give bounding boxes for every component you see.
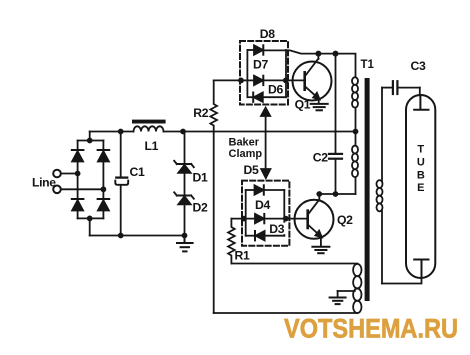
diode D4 (255, 214, 264, 223)
diode bridge lower-left (72, 199, 84, 211)
svg-text:Q2: Q2 (337, 213, 353, 227)
node D7 left junction (239, 78, 243, 82)
svg-text:D3: D3 (269, 222, 284, 236)
node Line terminal bottom (53, 186, 61, 194)
node bridge top tap (88, 139, 92, 143)
baker clamp callout line (265, 114, 267, 170)
wire bridge top to dc rail (89, 132, 91, 141)
svg-text:R2: R2 (193, 106, 208, 120)
wire D4 to Q2 base (264, 218, 306, 220)
node C1 bottom (119, 234, 123, 238)
node Line terminal top (53, 170, 61, 178)
capacitor C2 (329, 154, 342, 159)
tube bottom electrode (414, 260, 428, 278)
svg-text:E: E (417, 182, 424, 194)
wire box1 left rail (246, 50, 248, 97)
node T1 center tap (354, 130, 358, 134)
fluorescent tube outline (406, 95, 435, 278)
wire dc rail middle segment (164, 131, 356, 133)
dashed box 2 (baker clamp around D3-D5) (242, 181, 289, 246)
wire D7 branch left (241, 79, 254, 81)
svg-text:D8: D8 (260, 27, 275, 41)
diode bridge upper-right (98, 150, 110, 162)
node bridge AC left (76, 172, 80, 176)
diode D2 (zener) (174, 192, 194, 204)
transformer T1 secondary winding (377, 180, 383, 211)
wire R1 to D4 (231, 218, 255, 220)
svg-text:Baker: Baker (229, 137, 260, 149)
node top rail C2 (333, 52, 337, 56)
wire D1 top lead (184, 132, 186, 165)
wire bridge bottom to ground rail (89, 218, 91, 235)
wire line-top to bridge (61, 173, 78, 175)
wire R2 top to box1 (214, 79, 241, 81)
wire D2 bottom lead (184, 204, 186, 235)
svg-text:D5: D5 (244, 163, 259, 177)
wire line-bottom to bridge (61, 188, 103, 190)
transformer T1 primary lower winding (352, 146, 358, 178)
svg-text:Clamp: Clamp (229, 148, 263, 160)
node Q2 collector (317, 192, 321, 196)
tube top electrode (414, 96, 428, 110)
wire T1 primary tap upper (355, 108, 357, 146)
label D6 (white background) (267, 82, 285, 96)
svg-text:U: U (417, 157, 425, 169)
svg-text:Line: Line (32, 175, 56, 189)
svg-text:R1: R1 (235, 249, 250, 263)
wire C2 bottom lead (335, 160, 337, 194)
node D7 right junction (284, 78, 288, 82)
ground at Q1 emitter (311, 104, 328, 110)
transformer T1 core (365, 78, 370, 301)
wire D3 branch (246, 235, 255, 237)
inductor L1 winding (134, 126, 164, 131)
inductor L1 core (132, 120, 166, 124)
transformer T1 feedback winding (353, 264, 361, 313)
svg-text:C3: C3 (411, 59, 426, 73)
svg-text:D1: D1 (193, 171, 208, 185)
label TUBE (417, 144, 425, 194)
diode D7 (254, 76, 263, 85)
wire D5 branch left stub (246, 189, 255, 191)
diode bridge upper-left (72, 150, 84, 162)
diode bridge lower-right (98, 199, 110, 211)
wire top rail (D8 to T1) (263, 50, 355, 77)
wire D1-D2 link (184, 173, 186, 196)
capacitor C1 (115, 178, 128, 185)
diode D3 (255, 231, 265, 240)
wire box1 right rail (285, 50, 287, 97)
wire C1 top lead (120, 132, 122, 178)
wire R1 bottom to feedback winding (231, 263, 357, 265)
diode D6 (253, 93, 263, 102)
svg-text:VOTSHEMA.RU: VOTSHEMA.RU (284, 314, 458, 344)
diode D5 (255, 185, 264, 194)
wire box2 left rail (245, 190, 247, 236)
wire bridge top (78, 140, 104, 142)
svg-text:D4: D4 (255, 198, 270, 212)
svg-text:B: B (417, 169, 425, 181)
node C1 top (119, 130, 123, 134)
svg-text:C1: C1 (130, 165, 145, 179)
svg-text:C2: C2 (313, 151, 328, 165)
baker clamp arrow up (261, 108, 270, 116)
wire secondary top lead (381, 88, 383, 181)
node ground rail junction (183, 234, 187, 238)
node D1 top junction (181, 130, 185, 134)
ground below D2 (177, 236, 193, 252)
resistor R2 (210, 80, 217, 131)
wire C2 top lead (335, 54, 337, 153)
svg-text:D2: D2 (193, 201, 208, 215)
wire ground rail (90, 235, 185, 237)
node bridge AC right (101, 187, 105, 191)
transistor Q2 (295, 194, 334, 246)
wire T1 primary bottom lead (355, 177, 357, 194)
wire dc rail left segment (90, 131, 134, 133)
label D3 (white background) (268, 222, 286, 236)
wire D6 branch (247, 96, 253, 98)
wire bridge bottom (78, 217, 104, 219)
capacitor C3 (382, 81, 420, 95)
transistor Q1 (293, 54, 332, 104)
resistor R1 (228, 219, 235, 264)
wire bottom rail (214, 312, 358, 314)
svg-text:D7: D7 (253, 57, 268, 71)
diode D8 (254, 45, 263, 54)
transformer T1 primary upper winding (352, 77, 358, 108)
wire Q2 collector rail (319, 193, 355, 195)
dashed box 1 (baker clamp around D6-D8) (240, 41, 288, 105)
wire bridge left branch (77, 141, 79, 219)
svg-text:T1: T1 (361, 59, 375, 71)
wire tube bottom return (382, 278, 422, 284)
svg-text:D6: D6 (268, 82, 283, 96)
wire secondary bottom lead (381, 211, 383, 284)
node bridge bottom tap (88, 216, 92, 220)
svg-text:Q1: Q1 (295, 98, 311, 112)
node C2 bottom (334, 192, 338, 196)
ground at Q2 emitter (312, 247, 329, 253)
node top rail Q1 collector (316, 52, 320, 56)
wire box2 right rail (283, 190, 285, 236)
ground at feedback tap (330, 298, 346, 305)
wire R2 bottom long drop (213, 132, 215, 314)
node D4 left junction (242, 217, 246, 221)
wire bridge right branch (102, 141, 104, 219)
diode D1 (zener) (174, 161, 194, 173)
wire D7 to Q1 base (263, 79, 303, 81)
svg-text:T: T (417, 144, 424, 156)
svg-text:L1: L1 (145, 139, 159, 153)
wire C1 bottom lead (120, 186, 122, 236)
baker clamp arrow down (261, 169, 270, 178)
wire D5 branch right stub (264, 189, 285, 191)
wire feedback center tap (338, 290, 355, 292)
node D4 right junction (284, 217, 288, 221)
wire box1 branch1 left stub (247, 49, 254, 51)
